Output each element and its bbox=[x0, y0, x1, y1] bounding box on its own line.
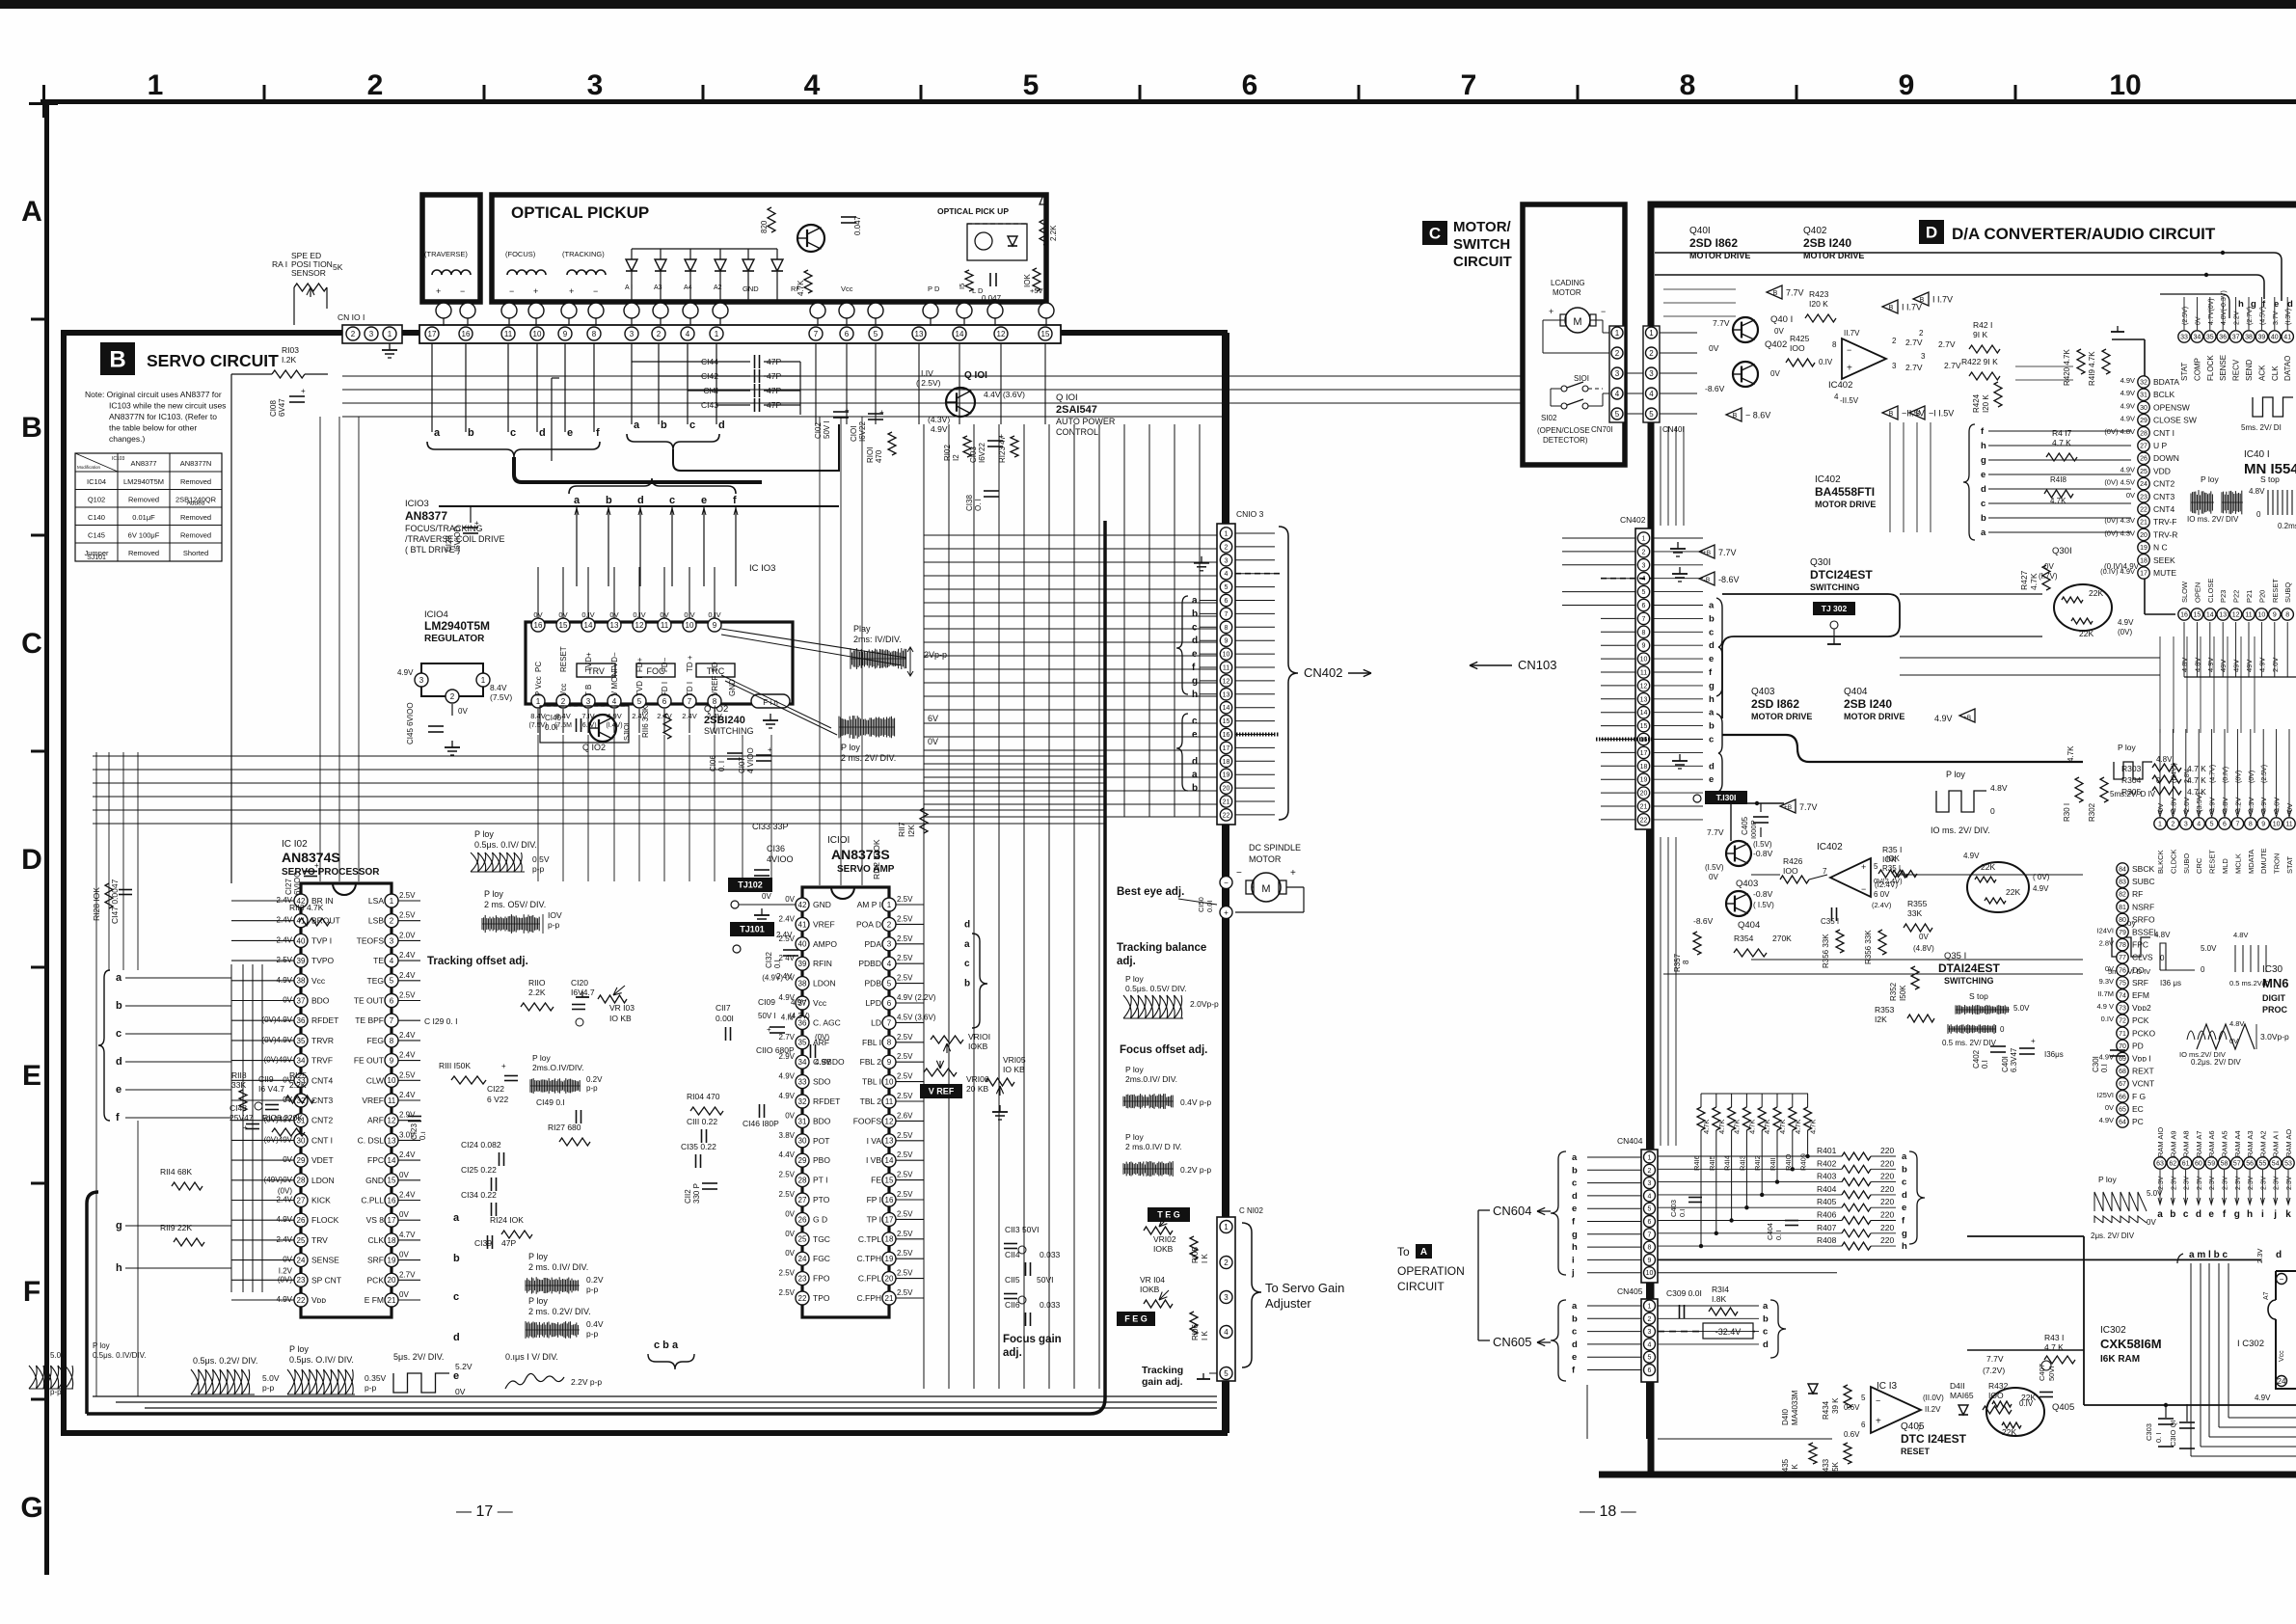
svg-text:8: 8 bbox=[2249, 822, 2253, 828]
svg-text:A3: A3 bbox=[654, 284, 662, 291]
svg-text:FE: FE bbox=[871, 1176, 881, 1185]
svg-text:37: 37 bbox=[297, 996, 306, 1005]
CN405 pin 5 bbox=[1644, 1351, 1656, 1363]
IC401 pin 12 P22 bbox=[2229, 609, 2241, 620]
0.5ms vertical ticks wave bbox=[2235, 945, 2266, 972]
svg-text:CI27: CI27 bbox=[284, 879, 293, 895]
svg-text:0: 0 bbox=[2256, 510, 2261, 519]
svg-text:2: 2 bbox=[1648, 1168, 1652, 1175]
svg-text:9: 9 bbox=[2261, 822, 2265, 828]
svg-text:a: a bbox=[574, 495, 581, 506]
IC102 pin 35 TRVR bbox=[294, 1034, 308, 1047]
CN405 pin 2 bbox=[1644, 1313, 1656, 1324]
svg-text:I I.7V: I I.7V bbox=[1932, 295, 1953, 305]
VR101 pot bbox=[931, 1036, 963, 1043]
svg-text:0V: 0V bbox=[399, 1290, 409, 1299]
svg-text:39 K: 39 K bbox=[1831, 1397, 1840, 1414]
svg-text:DTAI24EST: DTAI24EST bbox=[1938, 961, 2000, 975]
IC402 opamp top bbox=[1842, 338, 1886, 379]
svg-text:TRV-F: TRV-F bbox=[2153, 517, 2176, 527]
svg-text:PBO: PBO bbox=[813, 1155, 830, 1165]
svg-text:7.7V: 7.7V bbox=[1713, 318, 1730, 328]
svg-text:470: 470 bbox=[875, 449, 883, 463]
ground at CN101 pin1 bbox=[389, 343, 391, 350]
svg-text:0V: 0V bbox=[2147, 1218, 2156, 1227]
svg-text:a: a bbox=[1192, 770, 1198, 780]
svg-text:BDO: BDO bbox=[311, 996, 330, 1006]
svg-text:Q40 I: Q40 I bbox=[1770, 314, 1793, 325]
svg-text:+: + bbox=[767, 1025, 771, 1034]
svg-text:18: 18 bbox=[885, 1235, 894, 1244]
svg-text:CN IO I: CN IO I bbox=[338, 312, 365, 322]
svg-text:c: c bbox=[689, 420, 695, 431]
svg-text:TRV-R: TRV-R bbox=[2153, 529, 2177, 539]
svg-text:a: a bbox=[2157, 1209, 2163, 1220]
svg-text:17: 17 bbox=[1223, 745, 1230, 752]
svg-text:31: 31 bbox=[798, 1117, 807, 1125]
svg-text:+: + bbox=[243, 1123, 248, 1132]
svg-text:CNT I: CNT I bbox=[2153, 428, 2174, 438]
svg-text:2: 2 bbox=[1224, 1259, 1229, 1267]
svg-text:22: 22 bbox=[1223, 812, 1230, 819]
svg-text:2.5V: 2.5V bbox=[897, 1269, 913, 1278]
svg-text:+: + bbox=[314, 861, 319, 870]
CN103 pin 20 bbox=[1220, 782, 1231, 794]
svg-text:20: 20 bbox=[1640, 791, 1648, 798]
svg-text:25: 25 bbox=[297, 1236, 306, 1245]
svg-text:13: 13 bbox=[1223, 691, 1230, 698]
CN101 pin 4 bbox=[681, 327, 694, 340]
svg-text:31: 31 bbox=[2140, 392, 2147, 399]
svg-text:24: 24 bbox=[798, 1255, 807, 1263]
svg-text:C402: C402 bbox=[1972, 1049, 1981, 1069]
svg-text:RAM AO: RAM AO bbox=[2284, 1129, 2293, 1157]
svg-text:R405: R405 bbox=[1817, 1197, 1837, 1206]
svg-text:h: h bbox=[1572, 1242, 1578, 1253]
svg-text:9I K: 9I K bbox=[1973, 330, 1987, 339]
svg-text:IC103 while the new circuit us: IC103 while the new circuit uses bbox=[109, 401, 226, 411]
CN402 pin 21 bbox=[1637, 800, 1649, 812]
svg-text:SJ101: SJ101 bbox=[87, 555, 106, 561]
IC301 pin 74 EFM bbox=[2117, 989, 2128, 1001]
svg-text:0V: 0V bbox=[2195, 316, 2201, 325]
IC301 pin 77 CLVS bbox=[2117, 952, 2128, 963]
IC101 pin 6 LPD bbox=[882, 996, 896, 1010]
svg-text:47P: 47P bbox=[501, 1238, 516, 1248]
svg-text:11: 11 bbox=[661, 621, 669, 630]
10K pot bbox=[1033, 268, 1040, 291]
IC101 pin 17 TP I bbox=[882, 1212, 896, 1226]
IC103 pin 3 bbox=[581, 694, 595, 708]
svg-text:3: 3 bbox=[1224, 1293, 1229, 1302]
IC102 pin 37 BDO bbox=[294, 994, 308, 1008]
IC401 pin 17 MUTE bbox=[2138, 567, 2149, 579]
svg-text:67: 67 bbox=[2119, 1081, 2126, 1088]
svg-text:T E G: T E G bbox=[1157, 1210, 1180, 1220]
svg-text:I25VI: I25VI bbox=[2096, 1091, 2114, 1099]
svg-text:SUBO: SUBO bbox=[2182, 853, 2191, 874]
wire from R103 bbox=[230, 374, 232, 883]
svg-text:PCK: PCK bbox=[2132, 1015, 2149, 1025]
svg-text:2.5V: 2.5V bbox=[779, 1288, 796, 1297]
CN404 pin 7 bbox=[1644, 1229, 1656, 1240]
svg-text:8: 8 bbox=[1648, 1245, 1652, 1252]
svg-text:RII3 4.7K: RII3 4.7K bbox=[289, 903, 324, 912]
svg-text:LDON: LDON bbox=[311, 1176, 335, 1185]
svg-text:IOKB: IOKB bbox=[968, 1042, 988, 1051]
svg-text:+: + bbox=[879, 408, 884, 417]
svg-text:IO ms. 2V/ DIV: IO ms. 2V/ DIV bbox=[2187, 515, 2239, 524]
gnd near r420 bbox=[2117, 326, 2119, 332]
svg-text:AN8374S: AN8374S bbox=[282, 850, 340, 865]
svg-text:4.9V: 4.9V bbox=[2099, 1116, 2114, 1124]
svg-text:c: c bbox=[1709, 627, 1714, 637]
svg-text:0.IV: 0.IV bbox=[1819, 358, 1833, 366]
svg-text:11: 11 bbox=[2285, 822, 2292, 828]
left column vertical wires bbox=[95, 752, 97, 970]
svg-text:d: d bbox=[964, 919, 970, 930]
IC301 pin 63 RAM AIO bbox=[2154, 1157, 2166, 1169]
svg-text:4: 4 bbox=[804, 69, 821, 101]
svg-text:5.0V: 5.0V bbox=[2013, 1004, 2030, 1013]
resistor R409 4.7K bbox=[1804, 1107, 1812, 1130]
svg-text:RII4 68K: RII4 68K bbox=[160, 1167, 192, 1177]
svg-text:CI07: CI07 bbox=[738, 757, 746, 773]
svg-text:a: a bbox=[1709, 601, 1715, 611]
svg-text:4.9V: 4.9V bbox=[815, 1058, 831, 1067]
svg-text:40: 40 bbox=[798, 940, 807, 949]
svg-text:2.5V: 2.5V bbox=[897, 1209, 913, 1218]
svg-text:4.9V: 4.9V bbox=[2257, 658, 2266, 672]
svg-text:33K: 33K bbox=[231, 1080, 246, 1090]
svg-text:(7.2V): (7.2V) bbox=[1983, 1366, 2005, 1375]
svg-text:MOTOR DRIVE: MOTOR DRIVE bbox=[1751, 712, 1812, 721]
svg-text:18: 18 bbox=[1640, 764, 1648, 771]
svg-text:I6K RAM: I6K RAM bbox=[2100, 1354, 2140, 1365]
svg-text:25: 25 bbox=[798, 1235, 807, 1244]
svg-text:CI33 33P: CI33 33P bbox=[752, 822, 789, 831]
svg-text:CI32: CI32 bbox=[765, 952, 773, 968]
svg-text:Vcc: Vcc bbox=[311, 976, 326, 986]
ruler corner tick bbox=[42, 85, 45, 118]
svg-text:M: M bbox=[1261, 883, 1270, 895]
CN103 strip bbox=[1217, 524, 1235, 825]
svg-text:To: To bbox=[1397, 1245, 1410, 1259]
svg-text:GND: GND bbox=[365, 1176, 384, 1185]
svg-text:2ms.0.IV/ DIV.: 2ms.0.IV/ DIV. bbox=[1125, 1074, 1177, 1084]
svg-text:2.3V: 2.3V bbox=[2260, 1176, 2267, 1190]
svg-text:RF: RF bbox=[791, 284, 800, 293]
15 resistor bbox=[965, 270, 973, 291]
svg-text:8: 8 bbox=[1680, 69, 1696, 101]
svg-text:SDO: SDO bbox=[813, 1077, 831, 1087]
svg-text:TVP I: TVP I bbox=[311, 935, 332, 945]
svg-text:IC IO3: IC IO3 bbox=[749, 563, 775, 574]
svg-text:5: 5 bbox=[2210, 822, 2214, 828]
svg-text:CI43: CI43 bbox=[701, 400, 718, 410]
IC101 pin 39 RFIN bbox=[796, 957, 809, 970]
CN101 down wires bbox=[431, 343, 433, 432]
svg-text:35: 35 bbox=[798, 1039, 807, 1047]
IC102 pin 12 ARF bbox=[385, 1114, 398, 1127]
CN404 pin 9 bbox=[1644, 1254, 1656, 1265]
svg-text:TBL I: TBL I bbox=[862, 1077, 881, 1087]
svg-text:2.5V: 2.5V bbox=[399, 1070, 416, 1079]
svg-text:6: 6 bbox=[1225, 598, 1229, 605]
svg-text:(TRAVERSE): (TRAVERSE) bbox=[424, 250, 468, 258]
svg-text:15: 15 bbox=[388, 1177, 396, 1185]
IC301 top pin 4 bbox=[2193, 818, 2204, 829]
svg-text:2: 2 bbox=[1642, 549, 1646, 555]
svg-text:D: D bbox=[1926, 224, 1937, 242]
VR106 pot with VREF badge bbox=[920, 1084, 962, 1098]
svg-text:MLD: MLD bbox=[2221, 858, 2229, 874]
svg-text:24: 24 bbox=[297, 1256, 306, 1264]
CN103 pin16 hatched wire bbox=[1236, 733, 1279, 737]
svg-text:R4I2: R4I2 bbox=[1753, 1155, 1762, 1171]
svg-text:2.4V: 2.4V bbox=[399, 1091, 416, 1099]
svg-text:3: 3 bbox=[419, 676, 424, 685]
svg-text:0.2V: 0.2V bbox=[586, 1075, 603, 1084]
svg-text:49V: 49V bbox=[2245, 660, 2254, 672]
svg-text:D4II: D4II bbox=[1950, 1381, 1965, 1391]
svg-text:Q402: Q402 bbox=[1803, 226, 1827, 236]
svg-text:TGC: TGC bbox=[813, 1234, 830, 1244]
IC401 pin 10 P20 bbox=[2255, 609, 2267, 620]
IC401 pin 14 CLOSE bbox=[2204, 609, 2216, 620]
svg-text:I6VIOO: I6VIOO bbox=[453, 526, 462, 552]
svg-text:4: 4 bbox=[2197, 822, 2201, 828]
svg-text:28: 28 bbox=[297, 1177, 306, 1185]
svg-text:RI27 680: RI27 680 bbox=[548, 1123, 581, 1132]
svg-text:4.7 K: 4.7 K bbox=[2052, 438, 2071, 447]
svg-text:4.9 V: 4.9 V bbox=[2096, 1002, 2114, 1011]
svg-text:RII6 3.3K: RII6 3.3K bbox=[641, 705, 650, 738]
IC401 pin 23 CNT3 bbox=[2138, 491, 2149, 502]
svg-text:15: 15 bbox=[1223, 718, 1230, 725]
svg-text:2.5V: 2.5V bbox=[399, 891, 416, 900]
RA1 potentiometer bbox=[294, 284, 327, 291]
svg-text:p-p: p-p bbox=[586, 1285, 599, 1294]
svg-text:e: e bbox=[2208, 1209, 2214, 1220]
svg-text:Q IO2: Q IO2 bbox=[704, 704, 728, 715]
svg-text:17: 17 bbox=[428, 330, 437, 338]
CN101 pin 2 bbox=[652, 327, 665, 340]
svg-text:PDA: PDA bbox=[865, 939, 882, 949]
svg-text:0.5μs. 0.2V/ DIV.: 0.5μs. 0.2V/ DIV. bbox=[193, 1356, 257, 1366]
svg-text:22: 22 bbox=[798, 1294, 807, 1303]
svg-text:LM2940T5M: LM2940T5M bbox=[424, 619, 490, 633]
IC301 pin 55 RAM A2 bbox=[2256, 1157, 2268, 1169]
svg-text:1: 1 bbox=[2158, 822, 2162, 828]
IC101 pin 19 C.TPH bbox=[882, 1252, 896, 1265]
svg-text:TE: TE bbox=[373, 956, 384, 965]
IC102 pin 30 CNT I bbox=[294, 1133, 308, 1147]
svg-text:TP I: TP I bbox=[867, 1214, 881, 1224]
svg-text:0.I: 0.I bbox=[1981, 1060, 1989, 1069]
svg-text:R353: R353 bbox=[1875, 1005, 1895, 1015]
svg-text:9: 9 bbox=[1225, 638, 1229, 645]
svg-text:0.ıμs I V/ DIV.: 0.ıμs I V/ DIV. bbox=[505, 1352, 558, 1362]
svg-text:R401: R401 bbox=[1817, 1146, 1837, 1155]
row16-8 bottom connector bbox=[2184, 676, 2296, 678]
svg-text:CN404: CN404 bbox=[1617, 1136, 1643, 1146]
CN103 pin 17 bbox=[1220, 742, 1231, 753]
svg-text:I20 K: I20 K bbox=[1809, 299, 1828, 309]
svg-text:AUTO POWER: AUTO POWER bbox=[1056, 417, 1116, 426]
svg-text:4.9V: 4.9V bbox=[791, 998, 807, 1007]
svg-text:B: B bbox=[109, 347, 125, 373]
svg-text:b: b bbox=[468, 427, 474, 439]
svg-text:f: f bbox=[733, 495, 737, 506]
svg-text:4.7V: 4.7V bbox=[399, 1231, 416, 1239]
svg-text:21: 21 bbox=[1640, 804, 1648, 811]
svg-text:4: 4 bbox=[1648, 1193, 1652, 1200]
svg-text:0V: 0V bbox=[399, 1251, 409, 1259]
svg-text:h: h bbox=[1902, 1241, 1907, 1252]
CN103 pin 16 bbox=[1220, 728, 1231, 740]
svg-text:POT: POT bbox=[813, 1136, 829, 1146]
+B 11.7V badge bbox=[1882, 300, 1898, 313]
svg-text:TD +: TD + bbox=[686, 655, 694, 672]
svg-text:FOOFS: FOOFS bbox=[853, 1116, 882, 1125]
svg-text:CIOI: CIOI bbox=[850, 426, 858, 442]
IC301 top pin 10 bbox=[2270, 818, 2282, 829]
svg-text:Tracking: Tracking bbox=[1142, 1365, 1183, 1376]
svg-text:CII6: CII6 bbox=[1005, 1300, 1020, 1310]
svg-text:SLOW: SLOW bbox=[2180, 581, 2189, 603]
svg-text:TJ101: TJ101 bbox=[740, 925, 765, 934]
verticals below CN402 bbox=[1646, 829, 1653, 1150]
svg-text:66: 66 bbox=[2119, 1094, 2126, 1100]
svg-text:3.8V: 3.8V bbox=[779, 1131, 796, 1140]
svg-text:8: 8 bbox=[1682, 960, 1690, 964]
IC401 pin 41 DATAO bbox=[2282, 331, 2293, 342]
svg-text:TD I: TD I bbox=[686, 682, 694, 696]
svg-text:b: b bbox=[1572, 1165, 1578, 1176]
svg-text:7: 7 bbox=[2235, 822, 2239, 828]
resistor R4I2 4.7K bbox=[1758, 1107, 1766, 1130]
IC102 pin 28 LDON bbox=[294, 1174, 308, 1187]
svg-text:TE BPF: TE BPF bbox=[355, 1015, 384, 1025]
svg-text:21: 21 bbox=[388, 1296, 396, 1305]
IC102 pin 31 CNT2 bbox=[294, 1114, 308, 1127]
svg-text:CIRCUIT: CIRCUIT bbox=[1453, 254, 1512, 270]
svg-text:(0.IV): (0.IV) bbox=[2223, 767, 2229, 783]
svg-text:AN8377N for IC103. (Refer to: AN8377N for IC103. (Refer to bbox=[109, 412, 217, 421]
Q403 transistor bbox=[1726, 841, 1751, 866]
svg-text:FPC: FPC bbox=[2132, 940, 2148, 950]
svg-text:4.0V: 4.0V bbox=[2273, 798, 2282, 812]
svg-text:D/A CONVERTER/AUDIO CIRCUIT: D/A CONVERTER/AUDIO CIRCUIT bbox=[1952, 225, 2216, 243]
svg-text:Focus offset adj.: Focus offset adj. bbox=[1120, 1044, 1207, 1056]
svg-text:+: + bbox=[1847, 364, 1852, 374]
svg-text:2 4V: 2 4V bbox=[776, 972, 793, 981]
svg-text:83: 83 bbox=[2119, 880, 2126, 886]
IC301 pin 57 RAM A4 bbox=[2231, 1157, 2243, 1169]
svg-text:6: 6 bbox=[1861, 1421, 1866, 1429]
svg-text:a: a bbox=[1572, 1301, 1578, 1312]
svg-text:— 17 —: — 17 — bbox=[456, 1503, 513, 1520]
svg-text:CI48: CI48 bbox=[230, 1103, 247, 1113]
svg-text:2.4V: 2.4V bbox=[399, 971, 416, 980]
svg-text:(4.5V): (4.5V) bbox=[2259, 307, 2266, 325]
svg-text:5: 5 bbox=[1615, 410, 1620, 419]
IC101 pin 24 FGC bbox=[796, 1252, 809, 1265]
svg-text:I2K: I2K bbox=[906, 825, 916, 837]
svg-text:0. I: 0. I bbox=[2154, 1433, 2163, 1443]
svg-text:35: 35 bbox=[2206, 335, 2214, 341]
svg-text:PD: PD bbox=[2132, 1041, 2144, 1050]
svg-text:R4 I7: R4 I7 bbox=[2052, 428, 2072, 438]
IC401 pin 16 SLOW bbox=[2178, 609, 2190, 620]
svg-text:70: 70 bbox=[2119, 1043, 2126, 1050]
svg-text:2.3V: 2.3V bbox=[2158, 1176, 2165, 1190]
svg-text:CI35 0.22: CI35 0.22 bbox=[681, 1142, 716, 1151]
svg-text:0.033: 0.033 bbox=[1040, 1250, 1061, 1259]
svg-text:8: 8 bbox=[1225, 625, 1229, 632]
svg-text:CII3 50VI: CII3 50VI bbox=[1005, 1225, 1039, 1234]
svg-text:p-p: p-p bbox=[548, 920, 560, 930]
svg-text:41: 41 bbox=[798, 920, 807, 929]
svg-text:C405: C405 bbox=[1741, 816, 1749, 835]
CN101 main strip bbox=[419, 325, 1061, 343]
svg-text:A I: A I bbox=[625, 284, 633, 291]
brace under group2 bbox=[627, 434, 719, 449]
svg-text:TVPO: TVPO bbox=[311, 956, 335, 965]
svg-text:0V: 0V bbox=[1774, 327, 1784, 336]
CN604 label bbox=[1477, 1210, 1479, 1340]
svg-text:2: 2 bbox=[1919, 329, 1924, 338]
svg-text:7.7V: 7.7V bbox=[1786, 288, 1804, 298]
CN402 pin 3 bbox=[1637, 559, 1649, 571]
svg-text:+: + bbox=[1876, 1416, 1881, 1426]
svg-text:54: 54 bbox=[2272, 1161, 2280, 1168]
svg-text:+: + bbox=[501, 1062, 506, 1070]
svg-text:P loy: P loy bbox=[289, 1344, 309, 1354]
svg-text:C: C bbox=[21, 628, 42, 660]
svg-text:2: 2 bbox=[657, 330, 662, 338]
svg-text:2.4V: 2.4V bbox=[779, 914, 796, 923]
svg-text:CONTROL: CONTROL bbox=[1056, 427, 1098, 437]
svg-text:R303: R303 bbox=[2121, 764, 2142, 773]
IC102 pin 34 TRVF bbox=[294, 1054, 308, 1068]
svg-text:R4I3: R4I3 bbox=[1738, 1155, 1746, 1171]
svg-text:(4 3V): (4 3V) bbox=[789, 1012, 810, 1020]
svg-text:22K: 22K bbox=[2079, 629, 2093, 638]
IC102 pin 42 BR IN bbox=[294, 894, 308, 907]
svg-text:4.9V: 4.9V bbox=[779, 1092, 796, 1100]
svg-text:38: 38 bbox=[297, 977, 306, 986]
svg-text:RAM A6: RAM A6 bbox=[2207, 1130, 2216, 1157]
svg-text:2.7V: 2.7V bbox=[779, 1033, 796, 1042]
IC401 pin 11 P21 bbox=[2243, 609, 2255, 620]
svg-text:BLKCK: BLKCK bbox=[2156, 850, 2165, 874]
svg-text:CNT2: CNT2 bbox=[311, 1116, 333, 1125]
svg-text:2.0V: 2.0V bbox=[2271, 658, 2280, 672]
svg-text:NSRF: NSRF bbox=[2132, 902, 2154, 911]
svg-text:TRV: TRV bbox=[311, 1235, 328, 1245]
svg-text:FEG: FEG bbox=[367, 1036, 384, 1045]
IC101 pin 5 PDB bbox=[882, 977, 896, 990]
svg-text:29: 29 bbox=[2140, 418, 2147, 424]
svg-text:4.9V: 4.9V bbox=[2120, 389, 2135, 397]
svg-text:1: 1 bbox=[390, 897, 394, 906]
svg-text:0: 0 bbox=[1990, 806, 1995, 816]
svg-text:C404: C404 bbox=[1766, 1223, 1774, 1240]
Q404 transistor bbox=[1726, 891, 1751, 916]
CN103 pin 7 bbox=[1220, 608, 1231, 619]
